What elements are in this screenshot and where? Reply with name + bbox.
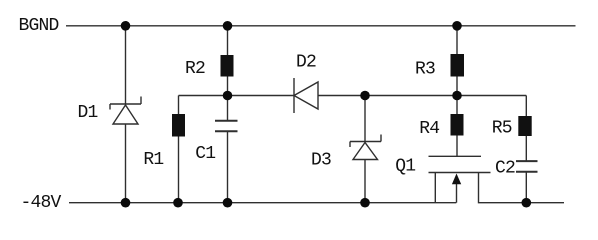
junction dot mid net D3 [360, 91, 370, 101]
wire bottom rail right segment [479, 173, 565, 203]
diode D2 [294, 78, 318, 113]
wire C2 to bottom rail [525, 172, 527, 203]
svg-text:C2: C2 [495, 159, 515, 179]
junction dot bottom rail D3 [360, 198, 370, 208]
wire D3 column upper [364, 96, 366, 142]
wire R3 R4 gate column [456, 26, 458, 157]
capacitor C2 [516, 161, 538, 172]
svg-text:R4: R4 [419, 119, 439, 139]
wire bottom rail -48V left segment [69, 202, 456, 204]
svg-text:D3: D3 [311, 151, 331, 171]
resistor R3 [451, 54, 465, 77]
svg-text:R2: R2 [185, 59, 205, 79]
wire C1 column lower [227, 131, 229, 202]
wire mid net right [318, 95, 526, 97]
svg-text:C1: C1 [195, 144, 215, 164]
wire D1 column lower [125, 124, 127, 203]
wire top rail BGND [66, 25, 576, 27]
resistor R2 [221, 55, 234, 77]
resistor R4 [451, 114, 464, 136]
svg-text:R5: R5 [492, 119, 512, 139]
junction dot bottom rail R1 [173, 198, 183, 208]
junction dot bottom rail C2 [522, 198, 532, 208]
junction dot mid net R2 C1 [223, 91, 233, 101]
resistor R1 [172, 114, 185, 137]
zener diode D1 [110, 97, 141, 125]
wire D1 column upper [125, 26, 127, 104]
wire R1 column [178, 96, 180, 203]
svg-text:D1: D1 [78, 103, 98, 123]
junction dot bottom rail D1 [121, 198, 131, 208]
svg-text:Q1: Q1 [395, 157, 415, 177]
wire D3 column lower [364, 160, 366, 203]
svg-text:D2: D2 [296, 53, 316, 73]
svg-text:-48V: -48V [21, 193, 62, 213]
svg-text:R3: R3 [415, 60, 435, 80]
svg-text:BGND: BGND [19, 16, 59, 36]
wire R2 column upper [227, 26, 229, 121]
junction dot mid net R3 R4 [452, 91, 462, 101]
svg-text:R1: R1 [143, 150, 163, 170]
zener diode D3 [350, 135, 381, 160]
capacitor C1 [215, 121, 238, 132]
junction dot top rail R2 [223, 21, 233, 31]
wire R5 C2 column [525, 96, 527, 162]
junction dot bottom rail C1 [223, 198, 233, 208]
junction dot top rail D1 [121, 21, 131, 31]
resistor R5 [518, 116, 531, 136]
transistor Q1 MOSFET [429, 156, 491, 202]
wire mid net left [179, 95, 295, 97]
junction dot top rail R3 [452, 21, 462, 31]
